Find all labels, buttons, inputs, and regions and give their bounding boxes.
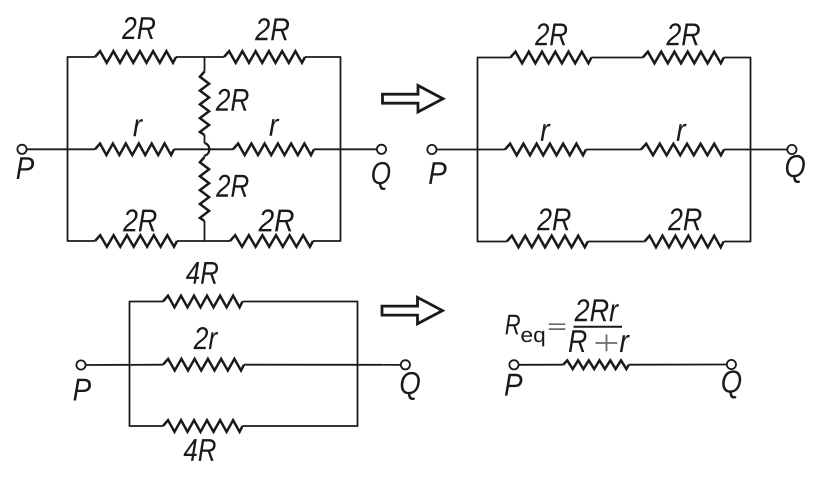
label Q (circuit 2) (786, 155, 805, 183)
resistor 2R top-left (circuit 1) (95, 51, 176, 63)
label 4R top (circuit 3) (186, 262, 218, 284)
wire top-right corner (circuit 2) (724, 57, 751, 59)
label 2R top-left (circuit 1) (122, 17, 155, 39)
wire top-left corner (circuit 3) (129, 301, 163, 303)
wire crossover hop (vertical branch jumps over middle wire) (205, 143, 210, 155)
terminal P (circuit 4) (509, 360, 518, 369)
label Q (circuit 3) (401, 372, 420, 400)
wire bottom-right corner (circuit 2) (724, 241, 752, 243)
resistor 2R top-right (circuit 1) (224, 51, 305, 63)
label Q (circuit 4) (722, 370, 741, 398)
wire right edge (circuit 2) (750, 58, 752, 242)
resistor 2R top-left (circuit 2) (510, 52, 591, 64)
wire left edge (circuit 3) (129, 302, 131, 427)
label r mid-left (circuit 2) (541, 124, 551, 141)
label 2R top-right (circuit 2) (666, 23, 700, 45)
resistor 2R top-right (circuit 2) (643, 52, 724, 64)
arrow implies (bottom) (382, 297, 443, 323)
formula R (Req) (506, 315, 520, 335)
label r mid-right (circuit 1) (269, 119, 279, 136)
label 2R bottom-left (circuit 2) (537, 208, 571, 230)
resistor 4R top (circuit 3) (163, 296, 243, 308)
formula numerator 2Rr (574, 299, 619, 321)
wire left edge (circuit 1) (67, 57, 69, 241)
label 2r middle (circuit 3) (194, 327, 219, 349)
label 2R vertical-bottom (circuit 1) (216, 175, 248, 197)
terminal Q (circuit 2) (787, 145, 796, 154)
label P (circuit 1) (17, 157, 34, 179)
wire vertical bottom stub (circuit 1) (204, 221, 206, 241)
wire mid middle (circuit 2) (586, 149, 641, 151)
label 2R vertical-top (circuit 1) (216, 89, 249, 111)
wire bottom-right corner (circuit 3) (243, 425, 359, 427)
terminal P (circuit 3) (76, 360, 85, 369)
label r mid-left (circuit 1) (133, 119, 143, 136)
formula denominator plus sign (596, 334, 618, 351)
resistor r mid-left (circuit 1) (95, 144, 174, 156)
label 2R top-right (circuit 1) (255, 18, 289, 40)
resistor 2R vertical-top (circuit 1) (200, 72, 209, 136)
wire right edge (circuit 1) (340, 57, 342, 241)
wire bottom-right corner (circuit 1) (313, 240, 341, 242)
wire circuit 1 to Q (314, 148, 377, 150)
resistor r mid-right (circuit 1) (233, 144, 314, 156)
resistor 2R bottom-left (circuit 2) (507, 236, 588, 248)
label P (circuit 2) (429, 162, 447, 184)
wire top middle (circuit 2) (591, 57, 642, 59)
wire vertical top stub (circuit 1) (204, 57, 206, 72)
wire bottom middle (circuit 2) (588, 241, 645, 243)
wire top middle (circuit 1) (176, 56, 224, 58)
formula denominator R (569, 330, 587, 352)
label P (circuit 4) (505, 374, 523, 396)
terminal Q (circuit 4) (727, 360, 736, 369)
terminal P (circuit 1) (17, 145, 26, 154)
formula denominator r (620, 335, 630, 352)
resistor Req (circuit 4) (563, 360, 629, 369)
resistor 2R bottom-left (circuit 1) (95, 235, 177, 247)
wire P to circuit 3 (86, 364, 163, 366)
terminal P (circuit 2) (427, 145, 436, 154)
label 2R bottom-right (circuit 2) (668, 208, 702, 230)
wire P to circuit 2 (437, 149, 506, 151)
wire top-right corner (circuit 3) (243, 301, 359, 303)
wire vertical middle lower (circuit 1) (204, 155, 206, 157)
resistor r mid-right (circuit 2) (641, 144, 724, 156)
label r mid-right (circuit 2) (677, 124, 687, 141)
wire resistor to Q (circuit 4) (629, 364, 727, 366)
label 4R bottom (circuit 3) (184, 439, 216, 461)
label 2R top-left (circuit 2) (535, 23, 567, 45)
label 2R bottom-left (circuit 1) (123, 209, 156, 231)
wire right edge (circuit 3) (357, 302, 359, 427)
wire P to resistor (circuit 4) (519, 364, 564, 366)
formula fraction bar (574, 326, 623, 328)
wire top-left corner (circuit 2) (477, 57, 511, 59)
resistor 4R bottom (circuit 3) (163, 420, 243, 432)
wire bottom-left corner (circuit 3) (129, 425, 163, 427)
wire vertical middle upper (circuit 1) (204, 135, 206, 143)
terminal Q (circuit 3) (401, 360, 410, 369)
arrow implies (top) (383, 86, 444, 112)
formula eq subscript (521, 331, 544, 347)
wire P to circuit 1 (27, 148, 95, 150)
resistor 2R vertical-bottom (circuit 1) (200, 157, 209, 221)
wire bottom-left corner (circuit 2) (477, 241, 507, 243)
terminal Q (circuit 1) (377, 145, 386, 154)
wire circuit 2 to Q (724, 149, 787, 151)
resistor 2R bottom-right (circuit 2) (645, 236, 724, 248)
wire top-left corner (circuit 1) (67, 56, 95, 58)
resistor 2r middle (circuit 3) (163, 359, 244, 371)
formula equals sign (549, 324, 566, 329)
label 2R bottom-right (circuit 1) (258, 209, 293, 231)
wire bottom-left corner (circuit 1) (67, 240, 95, 242)
label P (circuit 3) (74, 379, 92, 401)
wire left edge (circuit 2) (477, 58, 479, 242)
resistor r mid-left (circuit 2) (505, 144, 586, 156)
wire bottom middle (circuit 1) (177, 240, 230, 242)
resistor 2R bottom-right (circuit 1) (230, 235, 313, 247)
label Q (circuit 1) (372, 162, 390, 190)
wire top-right corner (circuit 1) (305, 56, 341, 58)
wire mid middle (circuit 1) (174, 148, 233, 150)
wire circuit 3 to Q (244, 364, 401, 366)
